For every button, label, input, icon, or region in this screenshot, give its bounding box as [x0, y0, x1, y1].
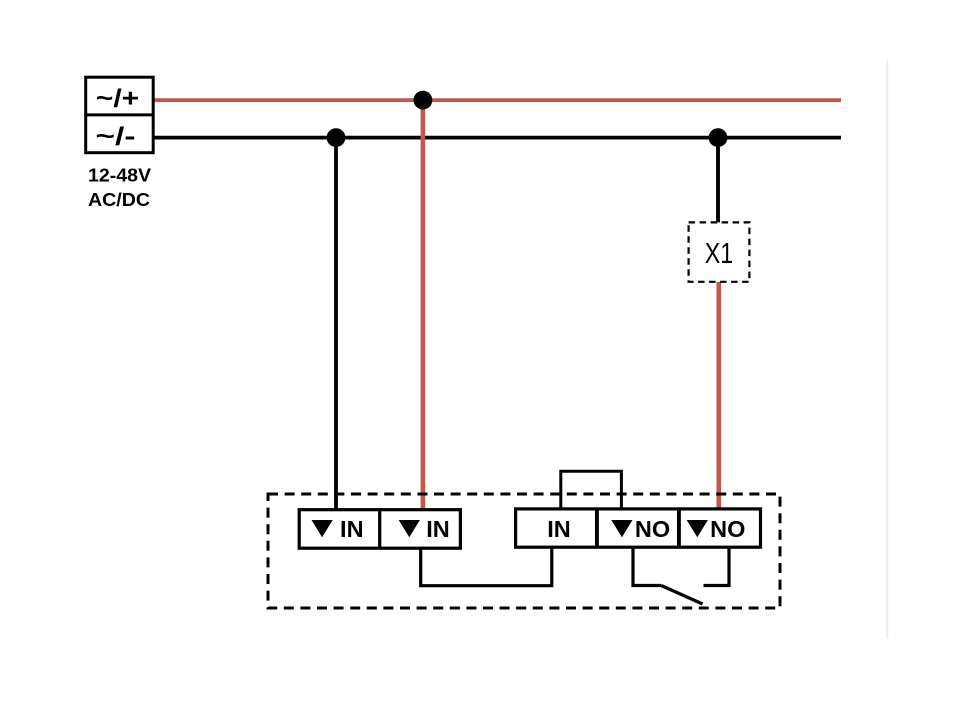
relay contact blade	[661, 586, 702, 605]
svg-text:NO: NO	[710, 516, 745, 542]
svg-text:X1: X1	[705, 238, 734, 270]
label 12-48V AC/DC	[88, 165, 152, 211]
terminal group A box	[299, 510, 460, 549]
svg-text:12-48V: 12-48V	[88, 165, 152, 186]
terminal NO1 label	[611, 516, 670, 542]
terminal IN3 label	[547, 516, 571, 542]
power supply terminal block	[86, 77, 154, 153]
wire red drop to IN2	[421, 100, 426, 510]
svg-text:AC/DC: AC/DC	[88, 189, 150, 210]
svg-text:IN: IN	[340, 516, 364, 542]
wire black drop to X1	[716, 138, 720, 224]
terminal IN1 label	[312, 516, 364, 542]
image edge line	[886, 60, 888, 639]
wire IN2 to IN3	[421, 548, 552, 586]
terminal NO2 label	[687, 516, 746, 542]
relay coil X1 dashed box	[689, 222, 750, 281]
wire red drop X1 to NO2	[716, 281, 721, 512]
terminal group B box	[516, 509, 761, 547]
wire L+ red bus	[152, 98, 841, 102]
svg-text:~/+: ~/+	[96, 85, 140, 113]
svg-text:NO: NO	[635, 516, 670, 542]
svg-text:~/-: ~/-	[96, 123, 136, 151]
svg-text:IN: IN	[426, 516, 450, 542]
jumper link IN to NO	[561, 471, 622, 509]
junction node on black bus at IN1 drop	[327, 128, 346, 147]
wire L- black bus	[152, 136, 841, 140]
junction node on red bus at IN2 drop	[414, 91, 433, 110]
relay contact fixed lead	[704, 547, 730, 586]
terminal IN2 label	[399, 516, 450, 542]
device outline dashed box	[268, 494, 780, 608]
relay contact common lead	[633, 547, 661, 586]
svg-text:IN: IN	[547, 516, 571, 542]
wire black drop to IN1	[334, 138, 338, 510]
junction node on black bus at X1 drop	[709, 128, 728, 147]
